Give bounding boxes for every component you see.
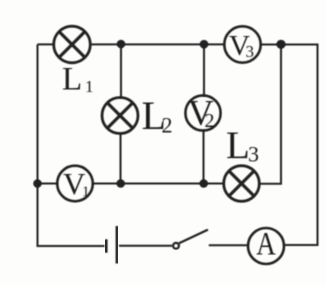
ammeter A [248,225,284,264]
battery [106,226,117,264]
wire top middle horizontal [91,43,225,45]
voltmeter V3 [224,26,260,62]
wire switch to ammeter [209,244,248,246]
label L3 [226,124,259,167]
wire top-right horizontal [261,44,319,46]
wire inner right vertical (L3 branch up) [280,45,282,185]
label L1 [62,62,94,98]
wire battery to switch [119,245,173,247]
wire left vertical [37,44,39,247]
wire middle rail center [93,183,225,185]
svg-text:3: 3 [246,42,255,61]
svg-text:2: 2 [162,113,173,138]
svg-text:3: 3 [248,142,259,167]
svg-text:L: L [226,124,250,167]
svg-text:1: 1 [85,77,94,96]
voltmeter V2 [185,92,220,132]
svg-text:A: A [256,225,276,262]
voltmeter V1 [57,166,93,202]
switch S [173,230,208,249]
wire bottom left [38,245,105,247]
node top-right junction [276,40,285,49]
lamp L1 [54,26,91,63]
svg-text:1: 1 [82,184,90,200]
lamp L2 [102,98,138,134]
wire L2 branch vertical lower [120,133,122,184]
svg-text:2: 2 [205,110,215,132]
node middle-left junction [33,179,42,188]
wire top-left horizontal [38,43,55,45]
node middle-V2 junction [199,179,208,188]
wire ammeter to right corner [284,244,319,246]
wire middle rail right [259,183,282,185]
lamp L3 [224,166,260,202]
label L2 [142,93,173,138]
wire L2 branch vertical upper [120,44,122,98]
wire right outer vertical [317,45,319,246]
wire middle rail left [38,183,59,185]
svg-text:L: L [62,62,82,98]
wire V2 branch vertical upper [203,44,205,96]
wire V2 branch vertical lower [203,130,205,184]
node top-L2 junction [117,40,126,49]
node top-V2 junction [200,40,209,49]
node middle-L2 junction [116,179,125,188]
